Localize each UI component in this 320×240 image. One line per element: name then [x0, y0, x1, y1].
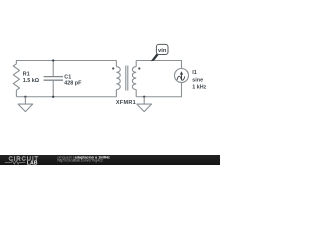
phase dot (primary): [112, 67, 114, 69]
svg-text:LAB: LAB: [27, 160, 38, 165]
arrow: [181, 74, 183, 80]
current source I1: [175, 69, 189, 83]
svg-text:1.5 kΩ: 1.5 kΩ: [23, 78, 40, 84]
primary winding (left): [115, 61, 117, 67]
node dot C1 bottom: [52, 96, 54, 98]
ground (right): [137, 96, 152, 112]
core: [126, 66, 128, 91]
logo zigzag wire: [5, 161, 25, 164]
flag box: [156, 44, 168, 54]
svg-text:I1: I1: [192, 70, 197, 76]
wire: left circuit top (node vout): [16, 61, 116, 64]
flag vin: [151, 44, 168, 61]
node dot C1 top: [52, 59, 54, 61]
svg-text:R1: R1: [23, 72, 30, 78]
svg-text:http://circuitlab.com/c/7hg4z2: http://circuitlab.com/c/7hg4z2: [58, 159, 103, 163]
secondary winding (right): [135, 61, 137, 67]
resistor R1: [13, 64, 19, 90]
wire: left circuit bottom (ground net): [16, 96, 116, 98]
svg-text:XFMR1: XFMR1: [116, 100, 136, 106]
transformer XFMR1: [112, 61, 140, 106]
svg-text:428 pF: 428 pF: [64, 80, 82, 86]
footer bar: [0, 155, 220, 165]
wire: right loop bottom: [136, 83, 181, 97]
svg-text:vin: vin: [158, 48, 167, 54]
flag tail: [151, 53, 159, 61]
ground (left): [18, 96, 33, 112]
sine mark: [177, 76, 185, 80]
svg-text:1 kHz: 1 kHz: [192, 85, 206, 91]
wire: right loop top (node vin): [136, 61, 181, 69]
svg-text:sine: sine: [192, 77, 203, 83]
phase dot (secondary): [138, 67, 140, 69]
wire: left vertical below resistor: [15, 90, 17, 97]
capacitor C1: [52, 61, 54, 77]
